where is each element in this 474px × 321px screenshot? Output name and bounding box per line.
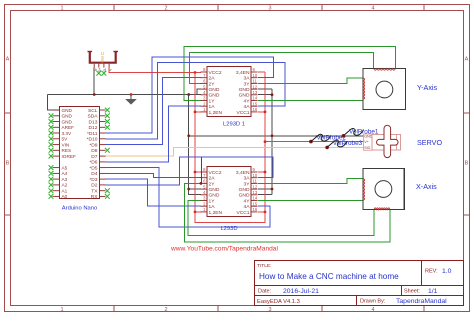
- svg-text:GND: GND: [209, 193, 220, 199]
- svg-text:1.0: 1.0: [442, 268, 452, 275]
- wire: L293D2 2Y to X-motor bottom-right: [185, 183, 390, 241]
- junction: [194, 71, 197, 74]
- wire: right red power rail: [264, 72, 266, 212]
- svg-text:2: 2: [164, 6, 167, 12]
- svg-text:3: 3: [203, 196, 206, 201]
- wire: servo GND line: [189, 135, 364, 137]
- svg-text:5V: 5V: [62, 137, 69, 142]
- svg-text:4A: 4A: [244, 104, 251, 110]
- pin numbers: [203, 167, 258, 212]
- wire: L293D2 right GND12: [258, 188, 272, 190]
- M2 bottom coil: [374, 208, 390, 210]
- junction: [187, 93, 190, 96]
- svg-text:D2: D2: [91, 183, 98, 189]
- junction: [264, 211, 267, 214]
- svg-text:2: 2: [203, 201, 206, 206]
- svg-text:TX: TX: [91, 189, 98, 195]
- motor M1 Y-Axis: [363, 69, 406, 110]
- svg-text:*D10: *D10: [87, 137, 98, 143]
- svg-text:TITLE:: TITLE:: [257, 263, 271, 269]
- Arduino right pins: [100, 110, 106, 196]
- M1 top coil: [374, 69, 396, 71]
- wire: L293D1 right GND13: [258, 94, 272, 96]
- svg-text:4: 4: [203, 90, 206, 95]
- svg-text:2A: 2A: [209, 76, 216, 82]
- junction: [271, 188, 274, 191]
- svg-text:SCL: SCL: [88, 108, 98, 114]
- probe VolProbe2: [309, 140, 313, 144]
- svg-text:1: 1: [60, 6, 63, 12]
- svg-text:2016-Jul-21: 2016-Jul-21: [283, 288, 319, 295]
- svg-text:D8: D8: [91, 148, 98, 154]
- svg-text:14: 14: [253, 96, 258, 101]
- wire: stub from L293D2 2Y up to blue channel: [200, 157, 202, 183]
- svg-text:GND: GND: [62, 114, 73, 119]
- svg-text:GND: GND: [62, 119, 73, 124]
- svg-text:*D11: *D11: [87, 131, 98, 137]
- svg-text:*D6: *D6: [89, 160, 97, 166]
- pins left: [201, 72, 208, 112]
- svg-text:5: 5: [203, 184, 206, 189]
- svg-text:VIN: VIN: [62, 142, 70, 147]
- wire: L293D2 4Y to X-motor left-bottom: [258, 200, 363, 202]
- svg-text:VCC1: VCC1: [236, 210, 249, 216]
- pin names: [209, 70, 251, 116]
- svg-text:3: 3: [268, 6, 271, 12]
- svg-text:D-: D-: [103, 68, 107, 71]
- svg-text:4Y: 4Y: [244, 98, 251, 104]
- svg-text:SERVO: SERVO: [417, 138, 442, 147]
- svg-text:VCC2: VCC2: [209, 70, 222, 76]
- junction: [264, 111, 267, 114]
- svg-text:15: 15: [253, 101, 258, 106]
- svg-text:10: 10: [253, 173, 258, 178]
- svg-text:1: 1: [60, 307, 63, 313]
- svg-text:D13: D13: [89, 119, 98, 125]
- wire: branch L293D1 1,2EN: [195, 111, 201, 113]
- no-connect X marks Arduino right: [105, 108, 110, 113]
- wire: D4 to L293D2 2A: [106, 173, 201, 177]
- svg-text:3Y: 3Y: [244, 81, 251, 87]
- svg-text:4: 4: [371, 6, 374, 12]
- svg-text:1: 1: [203, 207, 206, 212]
- svg-text:GND: GND: [209, 87, 220, 93]
- connector USB: [88, 52, 119, 63]
- svg-text:www.YouTube.com/TapendraMandal: www.YouTube.com/TapendraMandal: [170, 246, 278, 253]
- svg-text:A3: A3: [62, 177, 68, 182]
- wire: ground bus: [47, 94, 201, 96]
- svg-text:A1: A1: [62, 189, 68, 194]
- svg-text:How to Make a CNC machine at h: How to Make a CNC machine at home: [259, 272, 399, 281]
- junction: [271, 134, 274, 137]
- svg-text:GND: GND: [209, 187, 220, 193]
- title block: [255, 261, 464, 306]
- no-connect X marks Arduino left: [49, 113, 54, 118]
- svg-text:16: 16: [253, 107, 258, 112]
- junction: [187, 134, 190, 137]
- Arduino right pin names: [87, 108, 99, 200]
- svg-text:GND: GND: [62, 108, 73, 113]
- svg-text:14: 14: [253, 196, 258, 201]
- svg-text:3,4EN: 3,4EN: [236, 170, 250, 176]
- svg-text:1Y: 1Y: [209, 98, 216, 104]
- probe VolProbe1: [342, 134, 346, 138]
- svg-text:GND: GND: [239, 87, 250, 93]
- svg-text:A0: A0: [62, 194, 68, 199]
- wire: L293D2 VCC1 stub join: [258, 211, 265, 213]
- wire: branch L293D2 3,4EN: [258, 171, 265, 173]
- svg-text:VCC2: VCC2: [209, 170, 222, 176]
- svg-text:12: 12: [253, 184, 258, 189]
- svg-text:7: 7: [203, 73, 206, 78]
- junction: [130, 93, 133, 96]
- svg-text:11: 11: [253, 79, 258, 84]
- svg-text:VolProbe1: VolProbe1: [349, 128, 379, 135]
- wire: D7 to servo SIG (orange): [106, 147, 364, 156]
- wire: D6 to L293D1 1A: [106, 106, 201, 162]
- svg-text:GND: GND: [239, 93, 250, 99]
- USB label: [101, 51, 104, 63]
- wire: branch to L293D2 GND4: [189, 188, 201, 190]
- svg-text:Drawn By:: Drawn By:: [360, 299, 386, 305]
- servo cross arm: [377, 125, 399, 157]
- wire: D2 to L293D2 3A: [106, 157, 274, 185]
- svg-text:4: 4: [371, 307, 374, 313]
- svg-text:8: 8: [203, 67, 206, 72]
- svg-text:1,2EN: 1,2EN: [209, 210, 223, 216]
- svg-text:2Y: 2Y: [209, 81, 216, 87]
- svg-text:1/1: 1/1: [428, 288, 438, 295]
- wire: L293D1 1Y to Y-motor top-right: [184, 46, 395, 100]
- svg-text:TapendraMandal: TapendraMandal: [396, 298, 447, 305]
- junction: [187, 188, 190, 191]
- svg-text:REV:: REV:: [425, 269, 438, 275]
- svg-text:Date:: Date:: [258, 288, 272, 294]
- svg-text:D12: D12: [89, 125, 98, 131]
- svg-text:GND: GND: [209, 93, 220, 99]
- servo body: [372, 135, 401, 151]
- svg-text:3: 3: [268, 307, 271, 313]
- svg-text:3A: 3A: [244, 76, 251, 82]
- wire: L293D2 1Y to X-motor bottom-left: [188, 201, 374, 236]
- USB pins: [94, 64, 109, 68]
- wire: red under L293D2: [195, 212, 265, 222]
- junction: [93, 93, 96, 96]
- svg-text:*D5: *D5: [89, 165, 97, 171]
- svg-text:13: 13: [253, 90, 258, 95]
- wire: branch L293D1 VCC1: [258, 111, 265, 113]
- svg-text:1Y: 1Y: [209, 198, 216, 204]
- M2 left coil: [363, 178, 365, 200]
- svg-text:2: 2: [203, 101, 206, 106]
- svg-text:8: 8: [203, 167, 206, 172]
- wire: L293D2 right GND13: [258, 194, 272, 196]
- svg-text:12: 12: [253, 84, 258, 89]
- svg-text:6: 6: [203, 179, 206, 184]
- junction: [194, 171, 197, 174]
- svg-text:D4: D4: [91, 171, 98, 177]
- svg-text:6: 6: [203, 79, 206, 84]
- svg-text:SDA: SDA: [87, 114, 98, 120]
- svg-text:*D3: *D3: [89, 177, 97, 183]
- wire: branch L293D2 1,2EN: [195, 211, 201, 213]
- no-connect X on USB D-: [102, 71, 107, 76]
- pin numbers: [203, 67, 258, 112]
- svg-text:L293D: L293D: [220, 226, 237, 232]
- svg-text:L293D 1: L293D 1: [223, 122, 245, 128]
- svg-text:SIG: SIG: [364, 146, 370, 150]
- svg-text:11: 11: [253, 179, 258, 184]
- wire: D3 to L293D2 1A: [106, 179, 201, 206]
- junction: [200, 182, 203, 185]
- svg-text:EasyEDA V4.1.3: EasyEDA V4.1.3: [257, 299, 300, 305]
- wire: L293D1 right GND12: [258, 88, 272, 90]
- junction: [264, 140, 267, 143]
- svg-text:A2: A2: [62, 183, 68, 188]
- junction: [264, 171, 267, 174]
- M1 left coil: [363, 78, 365, 99]
- wire: USB VBUS to L293D1 VCC2: [109, 68, 201, 73]
- wire: D9 to L293D1 2A: [106, 78, 201, 145]
- svg-text:4A: 4A: [244, 204, 251, 210]
- pin names: [209, 170, 251, 216]
- svg-text:10: 10: [253, 73, 258, 78]
- probe VolProbe3: [325, 146, 329, 150]
- svg-text:A: A: [465, 57, 469, 63]
- svg-text:GND: GND: [239, 187, 250, 193]
- wire: gray down-rail to L293D2 left GNDs: [189, 95, 201, 195]
- svg-text:9: 9: [253, 167, 256, 172]
- wire: USB GND down: [93, 68, 95, 95]
- svg-text:2A: 2A: [209, 176, 216, 182]
- svg-text:V+: V+: [364, 140, 369, 144]
- wire: servo V+ line: [265, 141, 364, 143]
- junction: [271, 93, 274, 96]
- wire: L293D1 2Y to Y-motor top-left: [190, 52, 374, 83]
- motor M2 X-Axis: [363, 169, 404, 210]
- servo pin labels: [364, 134, 372, 150]
- wire: D5 to L293D2 4A: [106, 168, 271, 227]
- svg-text:1: 1: [203, 107, 206, 112]
- Arduino left pins: [53, 110, 60, 196]
- wire: D11 to L293D1 3A: [106, 57, 274, 133]
- svg-text:3: 3: [203, 96, 206, 101]
- svg-text:4: 4: [203, 190, 206, 195]
- svg-text:A: A: [6, 57, 10, 63]
- svg-text:3,4EN: 3,4EN: [236, 70, 250, 76]
- svg-text:B: B: [465, 161, 469, 167]
- wire: L293D1 GND4 jog to bus: [197, 89, 201, 95]
- svg-text:Arduino Nano: Arduino Nano: [62, 206, 97, 212]
- svg-text:1A: 1A: [209, 104, 216, 110]
- svg-text:4Y: 4Y: [244, 198, 251, 204]
- svg-text:7: 7: [203, 173, 206, 178]
- svg-text:A5: A5: [62, 165, 68, 170]
- Arduino Nano U1 body: [60, 107, 100, 199]
- pins right: [251, 72, 258, 112]
- wire: branch L293D1 3,4EN: [258, 71, 265, 73]
- wire: Arduino GND1 to ground bus: [47, 95, 59, 111]
- svg-text:2Y: 2Y: [209, 181, 216, 187]
- wire: L293D1 3Y to Y-motor left-top: [258, 78, 363, 84]
- svg-text:RES: RES: [62, 148, 72, 153]
- svg-text:5: 5: [203, 84, 206, 89]
- svg-text:RX: RX: [91, 194, 99, 200]
- svg-text:2: 2: [164, 307, 167, 313]
- svg-text:GND: GND: [239, 193, 250, 199]
- wire: left red power rail: [194, 73, 196, 212]
- svg-text:AREF: AREF: [62, 125, 75, 130]
- op-amp driver U2 L293D 1: [207, 67, 251, 117]
- wire: L293D1 4Y to Y-motor left-bottom: [258, 100, 363, 102]
- pins left: [201, 172, 208, 212]
- junction: [194, 111, 197, 114]
- op-amp driver U3 L293D: [207, 167, 251, 217]
- svg-text:VCC1: VCC1: [236, 110, 249, 116]
- ground: [130, 95, 132, 100]
- svg-text:9: 9: [253, 67, 256, 72]
- servo connector pin box: [364, 134, 373, 150]
- svg-text:A4: A4: [62, 171, 68, 176]
- svg-text:3Y: 3Y: [244, 181, 251, 187]
- junction: [194, 211, 197, 214]
- svg-text:X-Axis: X-Axis: [416, 182, 437, 191]
- svg-text:3.3V: 3.3V: [62, 131, 73, 136]
- svg-text:3A: 3A: [244, 176, 251, 182]
- svg-text:1,2EN: 1,2EN: [209, 110, 223, 116]
- svg-text:B: B: [101, 58, 104, 63]
- svg-text:15: 15: [253, 201, 258, 206]
- svg-text:16: 16: [253, 207, 258, 212]
- wire: branch L293D2 VCC2: [195, 171, 201, 173]
- wire: right gray rail: [271, 89, 273, 195]
- svg-text:D7: D7: [91, 154, 98, 160]
- svg-text:13: 13: [253, 190, 258, 195]
- wire: D10 to L293D1 4A: [106, 62, 285, 139]
- pins right: [251, 172, 258, 212]
- svg-text:*D9: *D9: [89, 142, 97, 148]
- svg-text:B: B: [6, 161, 10, 167]
- svg-text:VolProbe3: VolProbe3: [333, 140, 363, 147]
- no-connect X on USB D+: [96, 71, 101, 76]
- svg-text:Sheet:: Sheet:: [404, 288, 420, 294]
- svg-text:Y-Axis: Y-Axis: [417, 83, 438, 92]
- svg-text:IOREF: IOREF: [62, 154, 76, 159]
- Arduino left pin names: [62, 108, 76, 199]
- wire: L293D2 3Y to X-motor left-top: [258, 178, 363, 183]
- svg-text:1A: 1A: [209, 204, 216, 210]
